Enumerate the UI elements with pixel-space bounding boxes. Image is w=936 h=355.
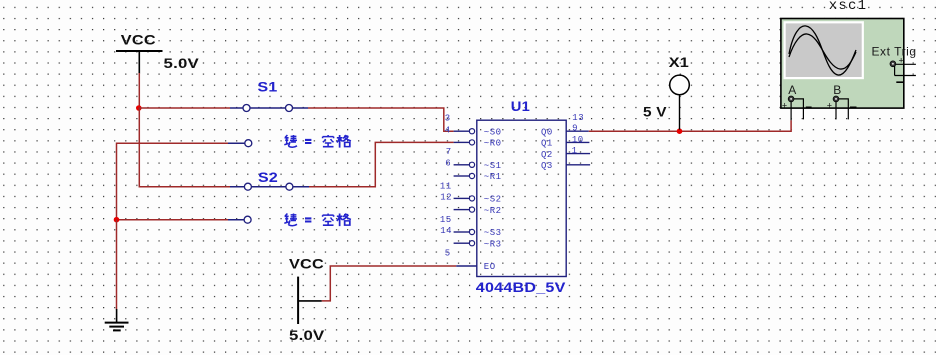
U1 pin 11 ~S2 — [440, 182, 502, 205]
svg-text:S2: S2 — [258, 170, 278, 186]
label S2 key equals space — [284, 214, 351, 227]
svg-text:10: 10 — [572, 135, 584, 145]
XSC1 terminal Ext Trig — [872, 44, 917, 82]
svg-text:~R2: ~R2 — [484, 206, 502, 216]
svg-text:15: 15 — [440, 215, 452, 225]
svg-text:3: 3 — [445, 113, 451, 123]
svg-text:Q1: Q1 — [541, 139, 553, 149]
svg-text:Ext Trig: Ext Trig — [872, 44, 917, 58]
svg-text:5.0V: 5.0V — [164, 56, 200, 71]
U1 pin 1 Q2 — [541, 146, 590, 160]
svg-text:~S1: ~S1 — [484, 161, 502, 171]
switch S1 — [228, 79, 308, 146]
junction node A — [136, 105, 142, 111]
svg-text:VCC: VCC — [121, 33, 156, 49]
wire node B down to ground — [116, 220, 118, 310]
svg-text:7: 7 — [446, 147, 452, 157]
svg-text:~R0: ~R0 — [484, 139, 502, 149]
U1 pin 4 ~R0 — [445, 125, 502, 148]
svg-text:+: + — [899, 56, 904, 66]
svg-text:5: 5 — [445, 248, 451, 258]
U1 pin 6 ~R1 — [445, 159, 501, 183]
svg-text:~S2: ~S2 — [484, 195, 502, 205]
XSC1 terminal A — [782, 83, 812, 120]
wire S2 throw to ground junction — [117, 219, 229, 221]
svg-text:X1: X1 — [669, 55, 689, 71]
U1 pin 14 ~R3 — [440, 226, 501, 249]
U1 pin Q3 — [541, 161, 590, 171]
wire S1 pole to U1 pin 3 — [308, 108, 454, 131]
svg-text:S1: S1 — [258, 79, 278, 95]
switch S2 — [228, 170, 309, 223]
svg-text:Q2: Q2 — [541, 150, 553, 160]
svg-text:13: 13 — [572, 113, 584, 123]
svg-text:~S3: ~S3 — [484, 228, 502, 238]
svg-text:~R3: ~R3 — [484, 239, 502, 249]
lamp probe X1 5V — [643, 55, 689, 130]
svg-text:A: A — [788, 83, 796, 97]
U1 pin 3 ~S0 — [445, 113, 502, 137]
oscilloscope XSC1 — [781, 0, 904, 108]
power VCC2 5.0V — [289, 256, 325, 343]
U1 pin 12 ~R2 — [440, 193, 501, 216]
U1 pin 13 Q0 — [541, 113, 589, 137]
wire S1 throw to ground rail — [117, 143, 229, 220]
svg-text:1: 1 — [572, 146, 578, 156]
power VCC1 5.0V — [116, 33, 200, 74]
wire VCC1 down to node A — [138, 73, 140, 108]
XSC1 terminal B — [827, 83, 857, 119]
svg-text:14: 14 — [440, 226, 452, 236]
svg-text:EO: EO — [484, 262, 496, 272]
svg-text:12: 12 — [440, 193, 452, 203]
junction node B ground rail — [114, 217, 120, 223]
svg-text:Q0: Q0 — [541, 127, 553, 137]
wire S2 pole to U1 pin 4 — [309, 142, 454, 186]
svg-text:~R1: ~R1 — [484, 172, 502, 182]
svg-text:U1: U1 — [511, 99, 530, 115]
svg-text:9: 9 — [572, 124, 578, 134]
svg-text:B: B — [833, 83, 841, 97]
ground — [105, 309, 129, 330]
U1 pin 7 ~S1 — [446, 147, 502, 171]
U1 pin 5 EO — [445, 248, 496, 272]
IC U1 4044BD_5V — [476, 99, 566, 296]
svg-text:5 V: 5 V — [643, 105, 667, 120]
svg-text:11: 11 — [440, 182, 452, 192]
wire U1 Q0 pin 9 to scope A — [589, 120, 791, 131]
svg-text:~S0: ~S0 — [484, 127, 502, 137]
junction node C at X1 — [677, 128, 683, 134]
label S1 key equals space — [284, 135, 351, 148]
svg-text:Q3: Q3 — [541, 161, 553, 171]
svg-text:4044BD_5V: 4044BD_5V — [476, 280, 566, 296]
wire VCC2 to U1 pin 5 EO — [322, 266, 456, 301]
U1 pin 15 ~S3 — [440, 215, 502, 238]
svg-text:VCC: VCC — [289, 256, 324, 272]
U1 pin 10 Q1 — [541, 135, 589, 149]
svg-text:+: + — [782, 101, 787, 111]
svg-text:4: 4 — [445, 125, 451, 135]
svg-text:5.0V: 5.0V — [289, 328, 325, 343]
svg-text:+: + — [827, 101, 832, 111]
svg-text:xsc1: xsc1 — [829, 0, 867, 14]
svg-text:6: 6 — [445, 159, 451, 169]
wire node A to S1 — [139, 107, 230, 109]
wire node A down to S2 row — [139, 108, 230, 187]
